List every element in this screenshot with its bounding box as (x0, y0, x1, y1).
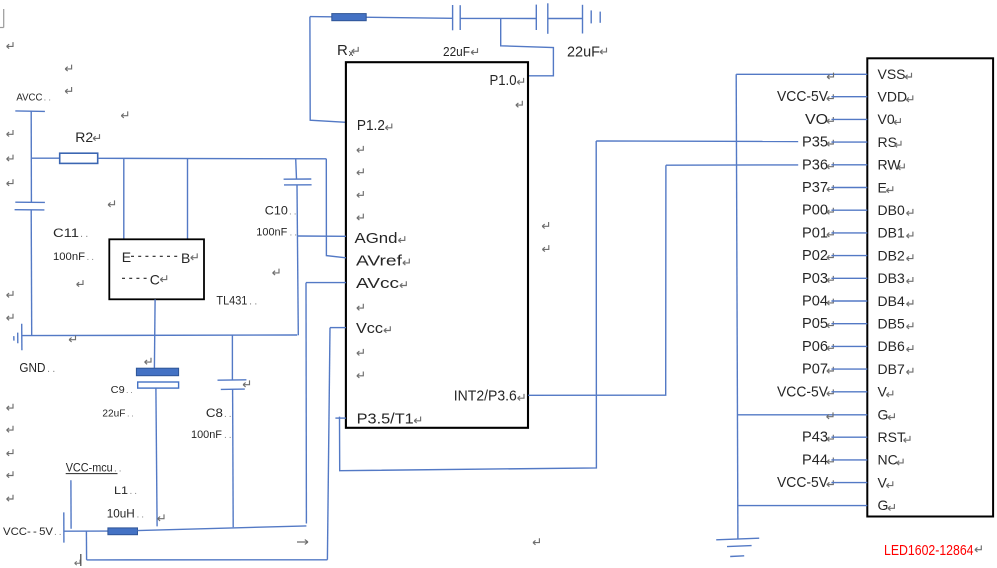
svg-text:C10: C10 (265, 206, 288, 218)
LCD pin DB7 label (878, 361, 913, 377)
svg-text:DB2: DB2 (878, 247, 905, 263)
wire VCC-5V to LCD pin V (831, 482, 867, 484)
svg-text:P03: P03 (802, 271, 828, 287)
pin P3.5/T1 (357, 410, 421, 427)
svg-text:AVCC: AVCC (16, 93, 42, 104)
TL431 pin C label (150, 272, 167, 288)
wire VSS (736, 73, 867, 80)
wire VSS long vertical to ground (736, 74, 738, 538)
svg-text:INT2/P3.6: INT2/P3.6 (454, 388, 517, 405)
TL431 pin B label (181, 250, 197, 266)
svg-text:RS: RS (878, 134, 897, 150)
LCD pin NC label (878, 452, 904, 468)
wire C_a to junction to cap C_b (460, 17, 536, 19)
wire VO to LCD pin V0 (831, 118, 867, 120)
node P01 label (802, 225, 833, 241)
svg-text:DB0: DB0 (878, 202, 905, 218)
capacitor C9 electrolytic bottom plate (138, 382, 179, 388)
wire AVCC vertical (30, 111, 32, 202)
MCU U1 box (346, 62, 528, 428)
svg-text:DB4: DB4 (878, 293, 905, 309)
svg-text:100nF: 100nF (256, 227, 287, 239)
svg-text:P36: P36 (802, 157, 828, 173)
node P00 label (802, 203, 833, 219)
svg-text:. .: . . (290, 228, 298, 239)
svg-text:GND: GND (19, 360, 45, 375)
svg-text:DB1: DB1 (878, 225, 905, 241)
svg-text:P43: P43 (802, 430, 828, 446)
wire P00 to LCD pin DB0 (831, 209, 867, 211)
svg-text:E: E (878, 179, 887, 195)
svg-text:V: V (878, 384, 888, 400)
LCD pin RST label (878, 429, 911, 445)
pin P1.2 (357, 117, 392, 134)
capacitor C11 plates (15, 202, 45, 210)
wire Vcc stub and vertical to bottom rail (327, 328, 346, 560)
svg-text:P35: P35 (802, 135, 828, 151)
label GND (19, 360, 55, 375)
label C8 (206, 406, 232, 420)
svg-text:P04: P04 (802, 294, 828, 310)
GND rail horizontal (22, 334, 297, 337)
wire P44 to LCD pin NC (831, 459, 867, 461)
wire C10 down to GND rail (297, 185, 298, 335)
AVCC power bar (15, 110, 45, 113)
wire P36 horizontal (666, 164, 798, 166)
capacitor C_b 22uF plates (536, 3, 548, 34)
svg-text:P1.2: P1.2 (357, 117, 385, 134)
svg-text:. .: . . (54, 527, 62, 538)
LCD pin VSS label (878, 66, 912, 82)
node P06 label (802, 339, 833, 355)
svg-text:P3.5/T1: P3.5/T1 (357, 410, 414, 427)
label R1 (337, 42, 358, 59)
LCD pin E label (878, 179, 893, 195)
svg-text:C8: C8 (206, 406, 223, 420)
wire VCC-5V to LCD pin V (831, 391, 867, 393)
wire VCC-mcu vertical (70, 480, 72, 529)
wire P02 to LCD pin DB2 (831, 255, 867, 257)
label VCC-mcu underlined (66, 461, 122, 475)
LCD pin DB0 label (878, 202, 913, 218)
svg-text:AVcc: AVcc (356, 275, 400, 292)
svg-text:G: G (878, 497, 889, 513)
svg-text:. .: . . (87, 252, 95, 263)
svg-text:P06: P06 (802, 339, 828, 355)
empty line mark (357, 304, 363, 311)
wire P3.5/T1 stub (335, 417, 346, 419)
VCC-5V power bar (63, 512, 65, 542)
wire rail to C10 (295, 159, 298, 179)
svg-text:. .: . . (224, 430, 232, 441)
wire P01 to LCD pin DB1 (831, 232, 867, 234)
svg-text:C11: C11 (53, 226, 79, 240)
wire GND rail to C8 (231, 335, 233, 380)
svg-text:AVref: AVref (356, 252, 403, 269)
label R2 (75, 129, 99, 145)
svg-text:RST: RST (878, 429, 906, 445)
label VCC- -5V (3, 526, 62, 538)
LCD pin DB2 label (878, 247, 913, 263)
svg-text:G: G (878, 406, 889, 422)
node P02 label (802, 248, 833, 264)
cursor mark (75, 554, 81, 566)
LCD pin V label (878, 384, 893, 400)
resistor R2 body (60, 153, 98, 163)
ground symbol GND (14, 324, 22, 351)
wire rail to R2 (31, 157, 59, 159)
wire P36 to LCD pin RW (831, 164, 867, 166)
LCD pin DB3 label (878, 270, 913, 286)
LCD pin VDD label (878, 89, 913, 105)
svg-text:. .: . . (289, 207, 297, 218)
wire AGnd stub (298, 235, 346, 237)
svg-text:DB5: DB5 (878, 316, 905, 332)
svg-text:P07: P07 (802, 362, 828, 378)
LCD pin DB1 label (878, 225, 913, 241)
wire rail R2 to AVref corner (98, 157, 327, 160)
svg-text:. .: . . (47, 363, 55, 375)
svg-text:RW: RW (878, 157, 902, 173)
tab mark (297, 540, 308, 545)
svg-text:P05: P05 (802, 316, 828, 332)
node junction drop to P1.0 (501, 18, 554, 75)
wire left vertical down to P1.2 (310, 17, 346, 123)
svg-text:TL431: TL431 (216, 296, 247, 308)
node VCC-5V label (777, 384, 833, 400)
svg-text:VCC-5V: VCC-5V (777, 384, 828, 400)
svg-text:VCC- - 5V: VCC- - 5V (3, 526, 54, 538)
label 10uH (107, 507, 144, 521)
node VCC-5V label (777, 89, 833, 105)
inductor L1 body (108, 528, 138, 535)
svg-text:B: B (181, 250, 190, 266)
label L1 (114, 485, 137, 497)
TL431 pin E label (122, 249, 131, 265)
svg-text:VO: VO (805, 112, 828, 128)
wire C_b to battery symbol (548, 18, 583, 20)
svg-text:. .: . . (224, 409, 232, 420)
node VO label (805, 112, 833, 128)
wire G row20 from vertical (738, 505, 868, 507)
wire C9 to VCC rail (156, 388, 157, 526)
node P44 label (802, 452, 833, 468)
transistor TL431 U2 box (109, 239, 204, 299)
ground symbol bottom (716, 538, 759, 556)
wire INT2/P3.6 route to P36 (528, 165, 666, 395)
label C11 (53, 226, 88, 240)
wire P07 to LCD pin DB7 (831, 368, 867, 370)
capacitor C8 plates (218, 380, 247, 390)
label 100nF for C10 (256, 227, 297, 239)
bottom rail to Vcc vertical (87, 559, 328, 561)
paragraph mark below P1.0 (516, 101, 522, 108)
wire P35 horizontal (596, 140, 798, 143)
svg-text:L1: L1 (114, 485, 128, 497)
LCD pin G label (878, 497, 895, 513)
label AVCC (16, 93, 51, 104)
wire top horizontal from left vertical to cap C_a (310, 17, 453, 19)
svg-text:NC: NC (878, 452, 898, 468)
node P43 label (802, 430, 833, 446)
node VCC-5V label (777, 475, 833, 491)
label 100nF for C11 (53, 251, 94, 263)
node P04 label (802, 294, 833, 310)
LCD module box (867, 58, 993, 516)
svg-text:22uF: 22uF (102, 409, 125, 420)
svg-text:. .: . . (137, 510, 145, 521)
wire VCC-5V to LCD pin VDD (831, 96, 867, 98)
TL431 C dashed line (122, 277, 147, 279)
svg-text:V0: V0 (878, 111, 895, 127)
label 22uF for C_b (567, 45, 607, 61)
empty line marks in MCU (357, 146, 363, 220)
LCD pin DB4 label (878, 293, 913, 309)
svg-text:P44: P44 (802, 452, 828, 468)
svg-text:P02: P02 (802, 248, 828, 264)
svg-text:100nF: 100nF (191, 429, 222, 441)
pin AGnd (355, 230, 405, 247)
capacitor C9 electrolytic top plate (136, 368, 178, 376)
LCD pin DB5 label (878, 316, 913, 332)
page corner mark (0, 9, 4, 28)
pin INT2/P3.6 (454, 388, 524, 405)
LCD pin G label (878, 406, 895, 422)
pin AVcc (356, 275, 406, 292)
LCD pin V label (878, 474, 893, 490)
svg-text:22uF: 22uF (443, 44, 470, 59)
wire G row16 from vertical (737, 412, 867, 419)
wire junction to bottom rail (85, 531, 87, 560)
wire TL431 pin E vertical (123, 158, 125, 239)
svg-text:10uH: 10uH (107, 507, 135, 521)
svg-text:Vcc: Vcc (356, 320, 384, 337)
LCD pin RS label (878, 134, 902, 150)
LCD pin RW label (878, 157, 905, 173)
wire C11 to GND rail (30, 210, 33, 335)
svg-text:C9: C9 (111, 385, 125, 396)
document paragraph marks (7, 42, 549, 545)
svg-text:. .: . . (127, 409, 134, 419)
svg-text:P01: P01 (802, 225, 828, 241)
svg-text:. .: . . (126, 385, 133, 395)
svg-text:. .: . . (44, 93, 52, 104)
VCC rail L1 to AVcc vertical (138, 526, 307, 531)
svg-text:22uF: 22uF (567, 45, 600, 61)
label 100nF for C8 (191, 429, 232, 441)
wire P35 to LCD pin RS (831, 141, 867, 143)
resistor R1 body (332, 14, 366, 21)
svg-text:R2: R2 (75, 129, 93, 145)
capacitor C10 plates (284, 179, 312, 185)
wire P43 to LCD pin RST (831, 436, 867, 438)
node P35 label (802, 135, 833, 151)
empty line marks (357, 349, 363, 378)
wire P3.5/T1 route down right and up to P35 (340, 141, 597, 471)
wire P06 to LCD pin DB6 (831, 345, 867, 347)
svg-text:P00: P00 (802, 203, 828, 219)
TL431 E-B dashed line (131, 255, 179, 257)
svg-text:DB6: DB6 (878, 338, 905, 354)
LCD pin DB6 label (878, 338, 913, 354)
wire C8 to VCC rail (232, 389, 235, 527)
svg-text:. .: . . (249, 296, 257, 308)
label 22uF for C9 (102, 409, 133, 420)
svg-text:VSS: VSS (878, 66, 906, 82)
wire AVref elbow (326, 159, 346, 258)
node P05 label (802, 316, 833, 332)
svg-text:R: R (337, 42, 348, 59)
svg-text:. .: . . (80, 228, 88, 240)
battery/polarized cap symbol (583, 5, 601, 34)
label 22uF for C_a (443, 44, 478, 59)
LCD pin V0 label (878, 111, 901, 127)
node P03 label (802, 271, 833, 287)
label LED1602-12864 (884, 542, 981, 559)
wire VCC bar to L1 (64, 530, 108, 532)
svg-text:P1.0: P1.0 (490, 72, 517, 89)
svg-text:VCC-5V: VCC-5V (777, 89, 828, 105)
svg-text:DB7: DB7 (878, 361, 905, 377)
svg-text:100nF: 100nF (53, 251, 85, 263)
svg-text:C: C (150, 272, 160, 288)
svg-text:AGnd: AGnd (355, 230, 398, 247)
wire P37 to LCD pin E (831, 187, 867, 189)
svg-text:. .: . . (114, 464, 122, 475)
pin P1.0 (490, 72, 524, 89)
wire P05 to LCD pin DB5 (831, 323, 867, 325)
svg-text:VCC-mcu: VCC-mcu (66, 461, 113, 475)
svg-text:. .: . . (130, 486, 138, 497)
pin AVref (356, 252, 409, 269)
wire P04 to LCD pin DB4 (831, 300, 867, 302)
label TL431 (216, 296, 257, 308)
svg-text:E: E (122, 249, 131, 265)
wire TL431 C down through GND rail to C9 (153, 299, 156, 368)
label C10 (265, 206, 297, 218)
svg-text:LED1602-12864: LED1602-12864 (884, 542, 974, 559)
node P36 label (802, 157, 833, 173)
svg-text:VCC-5V: VCC-5V (777, 475, 828, 491)
label C9 (111, 385, 133, 396)
wire TL431 pin B vertical (187, 159, 189, 240)
node P07 label (802, 362, 833, 378)
svg-text:DB3: DB3 (878, 270, 905, 286)
wire P03 to LCD pin DB3 (831, 277, 867, 279)
pin Vcc (356, 320, 390, 337)
svg-text:VDD: VDD (878, 89, 908, 105)
svg-text:V: V (878, 474, 888, 490)
node P37 label (802, 180, 833, 196)
svg-text:P37: P37 (802, 180, 828, 196)
capacitor C_a 22uF plates (453, 5, 461, 30)
wire AVcc stub and vertical to VCC rail (306, 283, 346, 524)
